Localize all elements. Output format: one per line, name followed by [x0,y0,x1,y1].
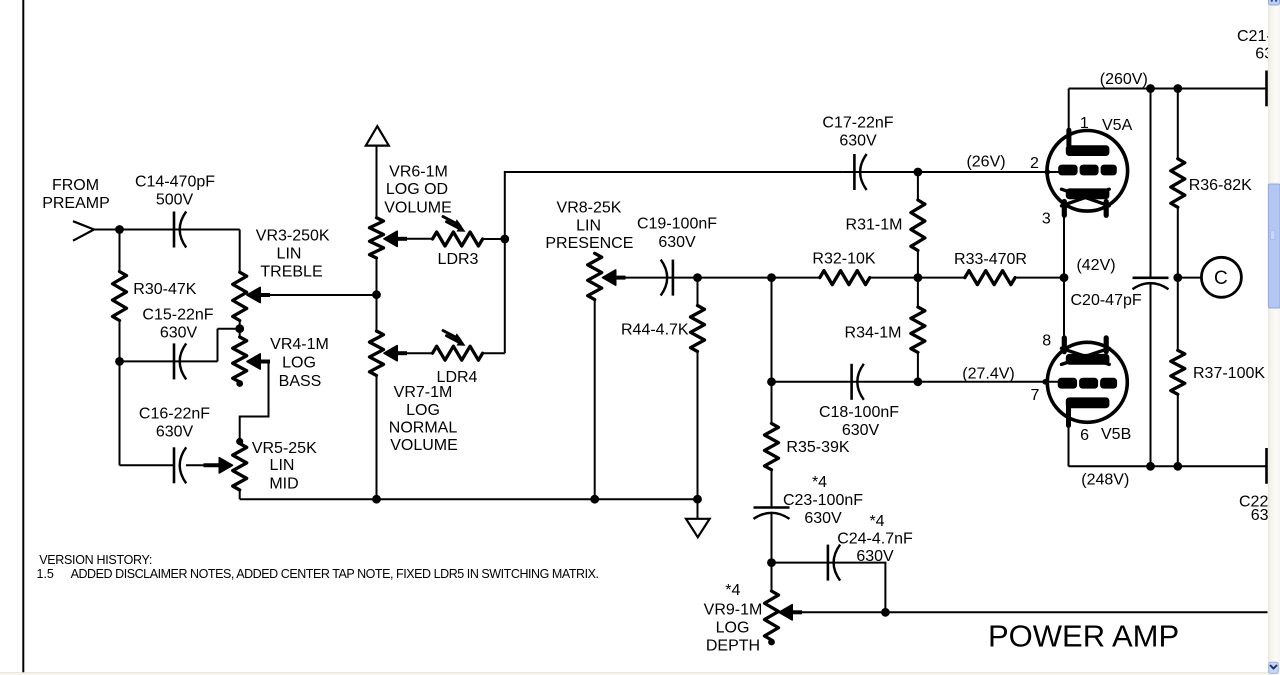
label C14 value [135,174,215,209]
label C20 value [1071,292,1142,309]
label C18 value [819,404,899,439]
node junction R31/R32/R34 [914,273,923,282]
node junction C18 left [767,377,776,386]
svg-text:7: 7 [1030,387,1039,404]
svg-text:LIN: LIN [277,245,302,262]
capacitor C23 [754,508,790,519]
svg-text:R34-1M: R34-1M [845,325,902,342]
label FROM PREAMP [42,177,110,212]
svg-text:LIN: LIN [270,457,295,474]
wire: vertical bus up and over to C17 [505,172,843,353]
node junction R37/248V rail [1173,462,1182,471]
node junction C18/R34 [914,377,923,386]
label R37 value [1193,365,1265,382]
svg-text:LDR4: LDR4 [437,369,478,386]
svg-text:3: 3 [1042,211,1051,228]
svg-text:630V: 630V [856,548,894,565]
svg-text:C23-100nF: C23-100nF [783,492,863,509]
node grid dot V5A [1045,169,1051,175]
svg-text:VR5-25K: VR5-25K [252,440,317,457]
scrollbar thumb [1268,184,1280,308]
svg-text:(27.4V): (27.4V) [962,366,1014,383]
svg-text:630V: 630V [842,422,880,439]
label C24 value [837,531,913,566]
svg-text:R31-1M: R31-1M [846,217,903,234]
label VR7 value [389,384,458,454]
label C22 value [1239,494,1280,511]
label (260V) [1100,71,1148,88]
label VERSION HISTORY [39,553,152,567]
capacitor C19 [661,260,673,296]
svg-text:630V: 630V [156,424,194,441]
svg-text:*4: *4 [812,474,827,491]
svg-text:PREAMP: PREAMP [42,195,110,212]
arrows of LDR4 [443,331,466,346]
wiper of VR7 [384,346,407,361]
potentiometer VR8 (presence) [588,253,602,499]
svg-text:C19-100nF: C19-100nF [637,216,717,233]
label LDR4 [437,369,478,386]
svg-text:630V: 630V [160,324,198,341]
label R33 value [954,251,1027,268]
V5A heater pins [1064,202,1106,216]
label C15 value [142,306,213,341]
svg-text:R44-4.7K: R44-4.7K [621,322,689,339]
label R36 value [1189,177,1252,194]
svg-text:C14-470pF: C14-470pF [135,174,215,191]
wire: input to C14 and on to treble corner [94,229,240,231]
svg-text:(248V): (248V) [1081,472,1129,489]
triode V5B envelope [1047,342,1127,422]
svg-text:630V: 630V [839,133,877,150]
node junction R36/R37/node C [1173,273,1182,282]
wire: C20 vertical [1150,89,1152,467]
label C21 voltage [1255,46,1280,63]
svg-text:VR4-1M: VR4-1M [270,336,329,353]
node junction R44/bus [693,495,702,504]
node junction depth branch [767,273,776,282]
wire: VR8 wiper through C19 to R32 [613,277,820,279]
node junction VR6/VR7/VR3-wiper [372,290,381,299]
label pin 3 [1042,211,1051,228]
capacitor C18 [852,364,864,400]
schematic page left border [22,0,24,673]
arrows of LDR3 [443,217,466,232]
svg-text:R37-100K: R37-100K [1193,365,1265,382]
wire: C23 to VR9/C24 node [771,513,773,563]
svg-text:R32-10K: R32-10K [812,250,875,267]
resistor R31 [911,172,925,278]
svg-text:V5B: V5B [1101,426,1131,443]
label VR8 value [545,200,633,253]
svg-text:DEPTH: DEPTH [706,638,760,655]
V5A heater [1062,189,1110,206]
node junction C19/R44 [693,273,702,282]
node junction VR9 wiper/C24 [881,608,890,617]
triode V5A envelope [1047,131,1128,212]
capacitor C21 plate [1265,71,1268,107]
label VR6 value [384,164,452,217]
wire: V5A cathode to V5B [1063,215,1065,339]
V5B anode plate [1066,397,1110,408]
node junction input/R30 [115,225,124,234]
svg-text:C18-100nF: C18-100nF [819,404,899,421]
wire: VR3 wiper to VR6/VR7 node [258,294,377,296]
label VR9 value [704,602,763,655]
page bottom edge strip [0,673,1280,675]
wire: bus to ground [697,499,699,519]
node junction R30/C15 [115,357,124,366]
wire: 260V rail [1069,88,1267,90]
wire: triangle to VR6 [376,146,378,218]
V5A anode lead stub [1066,130,1071,148]
label VR4 value [270,336,329,390]
svg-text:630V: 630V [658,234,696,251]
power rail symbol (triangle up) [366,126,389,145]
V5B grid dashes [1058,378,1117,389]
wire: left vertical to C16 [120,361,175,465]
label R31 value [846,217,903,234]
V5B heater pins [1064,338,1106,352]
capacitor C24 [828,545,840,581]
label pin 8 [1042,332,1051,349]
svg-text:MID: MID [269,476,298,493]
svg-text:LOG: LOG [282,355,316,372]
svg-text:POWER AMP: POWER AMP [988,618,1179,653]
wiper of VR6 [384,231,407,246]
capacitor C16 [174,447,186,483]
wire: C14 to VR3 top [239,230,241,273]
label R34 value [845,325,902,342]
V5B anode lead stub [1066,406,1071,426]
ground [686,519,710,537]
wire: VR4 wiper routing down to VR5 [240,362,269,442]
V5A cathode plate [1066,188,1110,199]
label pin 1 [1080,115,1089,132]
label pin 6 [1080,427,1089,444]
node junction VR8/bus [590,495,599,504]
node grid dot V5B [1042,379,1048,385]
svg-text:LOG: LOG [406,402,440,419]
svg-text:2: 2 [1030,155,1039,172]
wiper of VR8 [603,270,626,285]
node junction VR7/bus [372,495,381,504]
node C circle [1201,257,1241,297]
label (248V) [1081,472,1129,489]
node junction C23/C24/VR9 [767,558,776,567]
scrollbar track [1268,0,1280,675]
wire: C17 wire to V5A grid [842,171,1060,173]
wire: LDR4 to vertical bus [483,352,505,354]
resistor R35 [765,382,779,508]
node junction rail/C20 top [1146,84,1155,93]
resistor LDR4 [433,346,483,360]
resistor R37 [1171,350,1185,466]
svg-text:PRESENCE: PRESENCE [545,235,633,252]
wiper of VR3 [247,287,270,302]
label POWER AMP [988,618,1179,653]
wiper of VR5 [204,458,233,473]
node junction LDR3/LDR4 bus [500,235,509,244]
svg-text:C17-22nF: C17-22nF [822,115,893,132]
label R32 value [812,250,875,267]
wire: VR7 wiper to LDR4 [395,352,433,354]
label pin 7 [1030,387,1039,404]
resistor R33 [965,271,1015,285]
node: FROM PREAMP input connector [73,221,94,241]
resistor R34 [911,278,925,382]
wire: C18 wire to V5B grid [772,381,1060,383]
svg-text:VR8-25K: VR8-25K [557,200,622,217]
capacitor C17 [854,154,866,190]
label C21 value [1237,28,1280,45]
svg-text:8: 8 [1042,332,1051,349]
label R35 value [786,439,849,456]
V5A grid dashes [1058,165,1117,176]
label C19 value [637,216,717,252]
svg-text:C15-22nF: C15-22nF [142,306,213,323]
svg-text:C16-22nF: C16-22nF [139,406,210,423]
label (27.4V) [962,366,1014,383]
svg-text:VOLUME: VOLUME [384,199,452,216]
V5B heater [1062,348,1110,364]
wiper of VR9 [779,605,802,620]
svg-text:VR3-250K: VR3-250K [256,228,330,245]
node junction C17/R31 [914,168,923,177]
svg-text:6: 6 [1080,427,1089,444]
potentiometer VR9 (depth) [765,563,779,646]
label node C [1214,268,1228,289]
scrollbar down button [1269,662,1279,673]
svg-text:*4: *4 [869,513,884,530]
svg-text:V5A: V5A [1102,117,1133,134]
resistor R36 [1171,89,1185,278]
wiper of VR4 [247,354,270,369]
label C17 value [822,115,893,150]
svg-text:R35-39K: R35-39K [786,439,849,456]
label *4 of C24 [869,513,884,530]
svg-text:(42V): (42V) [1076,257,1115,274]
wire: LDR3 to vertical bus [483,238,505,240]
svg-text:VR9-1M: VR9-1M [704,602,763,619]
svg-text:C20-47pF: C20-47pF [1071,292,1142,309]
label version 1.5 note [37,567,599,581]
svg-text:BASS: BASS [279,373,322,390]
label V5A [1102,117,1133,134]
label R30 value [133,281,196,298]
svg-text:1: 1 [1080,115,1089,132]
resistor R44 [691,278,705,500]
svg-text:FROM: FROM [52,177,99,194]
svg-text:C24-4.7nF: C24-4.7nF [837,531,913,548]
V5A anode plate [1066,145,1110,156]
node junction VR3/VR4/C15 [235,324,244,333]
svg-text:VOLUME: VOLUME [390,437,458,454]
wire: R36 to R37 [1177,278,1179,351]
svg-text:500V: 500V [156,192,194,209]
resistor R32 [820,271,870,285]
label (42V) [1076,257,1115,274]
wire: depth vertical from mid to C18 [771,278,773,382]
wire: C15 branch [120,329,240,362]
wire: mid wire R32 to R33 [870,277,1064,279]
label V5B [1101,426,1131,443]
capacitor C14 [174,212,186,248]
resistor LDR3 [433,232,483,246]
label VR5 value [252,440,317,493]
potentiometer VR5 (mid) [233,444,247,500]
wire: C16 to VR5 wiper [186,464,221,466]
resistor R30 [113,230,127,362]
svg-text:LOG OD: LOG OD [386,181,448,198]
wire: ground bus [240,498,698,500]
svg-text:C: C [1214,268,1228,289]
potentiometer VR4 (bass) [233,337,247,387]
wire: to node C [1178,277,1202,279]
svg-text:LIN: LIN [576,218,601,235]
wire: VR6/VR7 connection node [376,258,378,331]
svg-text:VERSION HISTORY:: VERSION HISTORY: [39,553,152,567]
svg-text:*4: *4 [725,582,740,599]
label *4 of C23 [812,474,827,491]
node junction C20/248V rail [1146,462,1155,471]
wire: V5B anode to 248V rail [1068,424,1070,466]
svg-text:LOG: LOG [716,620,750,637]
svg-text:R30-47K: R30-47K [133,281,196,298]
svg-text:TREBLE: TREBLE [260,264,322,281]
label R44 value [621,322,689,339]
capacitor C20 [1133,278,1169,289]
node junction rail/R36 top [1173,84,1182,93]
svg-text:R36-82K: R36-82K [1189,177,1252,194]
svg-text:NORMAL: NORMAL [389,419,458,436]
label LDR3 [438,251,479,268]
label C23 value [783,492,863,527]
wire: VR6 wiper to LDR3 [395,238,433,240]
wire: 248V rail [1069,465,1267,467]
wire: VR3 bottom to junction [239,321,241,338]
label C22 voltage [1251,507,1280,524]
capacitor C15 [174,343,186,379]
label VR3 value [256,228,330,281]
potentiometer VR6 (OD volume) [370,218,384,258]
node junction VR5 top [236,438,243,445]
capacitor C22 plate [1265,448,1268,484]
label C16 value [139,406,210,441]
V5B cathode plate [1066,354,1110,365]
svg-text:R33-470R: R33-470R [954,251,1027,268]
wire: C24 branch [772,563,886,613]
label (26V) [966,154,1005,171]
svg-text:(26V): (26V) [966,154,1005,171]
svg-text:VR7-1M: VR7-1M [394,384,453,401]
wire: depth wiper to power amp [790,611,1268,613]
svg-text:630V: 630V [804,510,842,527]
potentiometer VR7 (normal volume) [370,331,384,499]
svg-text:LDR3: LDR3 [438,251,479,268]
svg-text:ADDED DISCLAIMER NOTES, ADDED: ADDED DISCLAIMER NOTES, ADDED CENTER TAP… [71,567,599,581]
node junction cathode/R33 [1060,273,1069,282]
potentiometer VR3 (treble) [233,272,247,320]
label *4 of VR9 [725,582,740,599]
label pin 2 [1030,155,1039,172]
svg-text:VR6-1M: VR6-1M [389,164,448,181]
svg-text:(260V): (260V) [1100,71,1148,88]
wire: rail down to V5A anode [1068,89,1070,134]
svg-text:1.5: 1.5 [37,567,54,581]
scrollbar up button remnant [1269,0,1280,5]
